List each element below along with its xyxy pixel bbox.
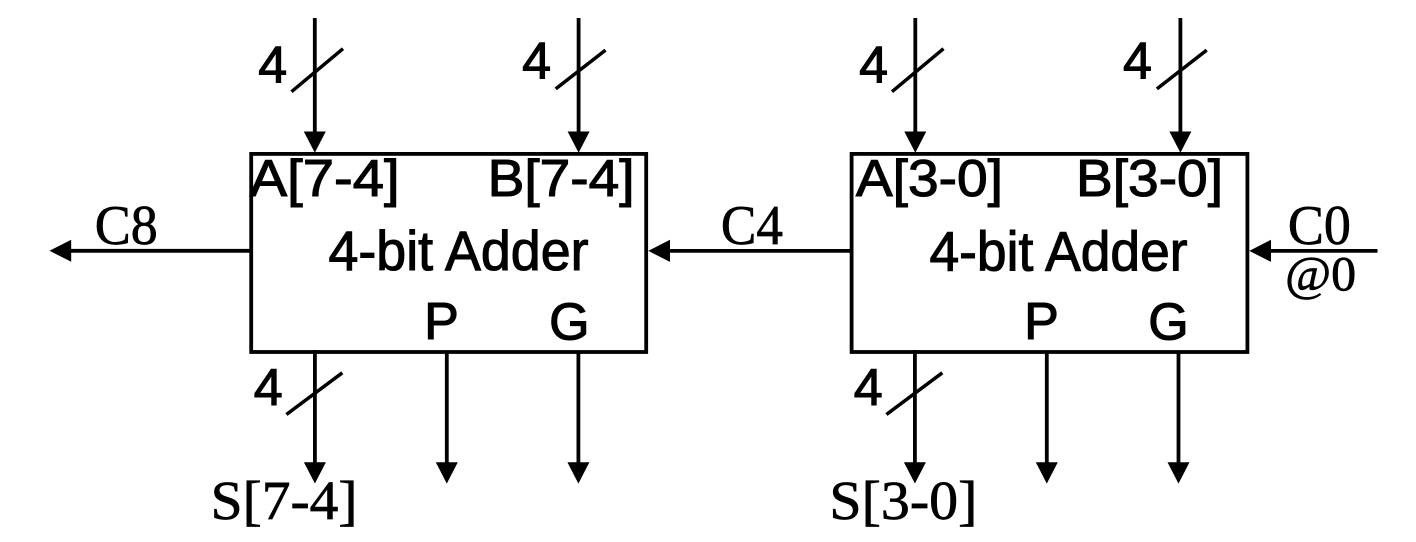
svg-text:B[3-0]: B[3-0] (1076, 150, 1223, 208)
wire: A[3-0] input to U2 (913, 18, 917, 136)
wire: P output of U2 (1045, 351, 1049, 467)
4-bit adder U2 (low nibble) body (852, 154, 1248, 352)
svg-text:A[7-4]: A[7-4] (250, 150, 400, 208)
svg-text:4: 4 (859, 37, 888, 95)
svg-text:C4: C4 (721, 195, 783, 257)
svg-text:4: 4 (258, 37, 287, 95)
wire: P output of U1 (445, 351, 449, 467)
svg-text:@0: @0 (1285, 246, 1356, 301)
svg-text:C8: C8 (95, 195, 158, 257)
svg-text:P: P (424, 293, 459, 351)
wire: G output of U2 (1177, 351, 1181, 467)
bus-width slash on A[7-4] wire (292, 49, 344, 92)
svg-text:P: P (1024, 293, 1059, 351)
svg-text:4: 4 (854, 359, 883, 417)
wire: A[7-4] input to U1 (313, 18, 317, 136)
wire: G output of U1 (577, 351, 581, 467)
bus-width slash on B[7-4] wire (556, 50, 606, 89)
svg-text:4-bit Adder: 4-bit Adder (930, 220, 1188, 283)
wire: S[3-0] sum output of U2 (913, 350, 917, 466)
bus-width slash on B[3-0] wire (1157, 50, 1207, 89)
bus-width slash on S[7-4] wire (286, 373, 342, 415)
svg-text:G: G (549, 294, 589, 352)
svg-text:A[3-0]: A[3-0] (856, 150, 1003, 208)
wire: C8 carry-out from U1 (60, 249, 252, 253)
svg-text:S[7-4]: S[7-4] (211, 470, 358, 531)
svg-text:4: 4 (522, 33, 551, 91)
wire: C4 carry from U2 to U1 (659, 249, 853, 253)
wire: B[7-4] input to U1 (577, 18, 581, 136)
bus-width slash on S[3-0] wire (886, 373, 942, 415)
wire: C0 carry-in to U2 (1260, 249, 1378, 253)
wire: S[7-4] sum output of U1 (313, 350, 317, 466)
svg-text:4-bit Adder: 4-bit Adder (329, 219, 589, 282)
svg-text:4: 4 (254, 359, 283, 417)
svg-text:G: G (1148, 294, 1188, 352)
bus-width slash on A[3-0] wire (892, 49, 944, 92)
wire: B[3-0] input to U2 (1179, 18, 1183, 136)
svg-text:S[3-0]: S[3-0] (829, 470, 977, 531)
svg-text:B[7-4]: B[7-4] (488, 150, 635, 208)
svg-text:4: 4 (1123, 33, 1152, 91)
4-bit adder U1 (high nibble) body (251, 154, 646, 352)
